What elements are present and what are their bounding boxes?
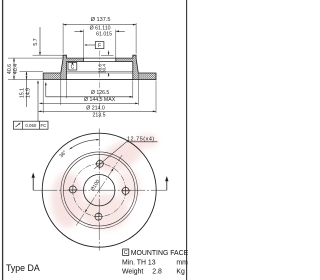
svg-text:14.9: 14.9 [25,88,31,98]
section view: disc body right half [116,55,156,79]
datum F box [95,42,104,49]
svg-text:C: C [124,250,128,256]
far-side edge: band top across cavity [66,72,132,74]
drawing frame right border [186,0,188,280]
front view hat circle 144.5 [61,152,138,229]
bolt circle (PCD 100) [73,164,126,217]
vertical centreline [98,129,100,251]
svg-text:40.4: 40.4 [13,64,19,74]
section cut arrow left [32,175,34,191]
far-side edge: undercut groove across cavity [66,71,132,73]
dim 40.6 / 40.4 overall height [13,58,15,80]
dim 5.7 rim height [39,27,41,55]
section view: disc body left half [43,55,83,79]
section axis centreline [99,51,101,118]
datum C box [68,62,77,70]
svg-text:C: C [71,64,75,70]
svg-text:mm: mm [176,259,188,266]
svg-text:F: F [98,43,101,49]
far-side edge: plate bottom across bore [83,61,115,63]
svg-text:0.050: 0.050 [25,123,37,128]
horizontal centreline [33,189,167,191]
svg-text:12.75(x4): 12.75(x4) [127,137,155,143]
bolt holes [95,159,105,169]
dim 15.1 / 14.9 band thickness [26,72,28,107]
svg-text:213.5: 213.5 [93,112,106,118]
svg-text:5.7: 5.7 [33,38,39,45]
svg-text:FC: FC [40,123,46,128]
drawing frame left border [2,0,4,280]
svg-text:MOUNTING FACE: MOUNTING FACE [131,250,189,257]
leader from FC frame to braking surface [37,81,39,121]
svg-text:30.4: 30.4 [101,64,106,73]
svg-text:2.8: 2.8 [152,268,162,275]
feature control frame runout 0.050 FC [13,121,48,129]
svg-text:Min. TH 13: Min. TH 13 [122,259,156,266]
svg-text:Ø 126.5: Ø 126.5 [91,90,110,96]
PCD 100 diagonal dimension [76,155,122,225]
svg-text:Type DA: Type DA [6,263,40,273]
svg-text:Ø 137.5: Ø 137.5 [91,17,111,23]
dim 30.5 cavity depth [108,51,110,55]
section cut arrow right [166,178,168,190]
svg-text:Kg: Kg [176,268,185,275]
mounting face note [123,249,129,255]
svg-text:Ø 144.5 MAX: Ø 144.5 MAX [84,97,116,103]
svg-text:Ø 61.110: Ø 61.110 [90,25,111,31]
watermark [51,133,158,230]
bolt hole dim 12.75 (x4) leader [94,142,126,169]
front view hat circle 137.5 [63,154,135,226]
far-side edge: face across bore [83,57,115,59]
svg-text:61.015: 61.015 [96,32,112,38]
svg-text:Ø 214.0: Ø 214.0 [86,105,105,111]
far-side edge: band bottom across cavity [66,79,132,81]
front view outer circle [42,133,156,247]
angle dim 36 deg arc [70,140,100,150]
svg-text:Weight: Weight [122,268,143,275]
bore circle [84,175,115,206]
